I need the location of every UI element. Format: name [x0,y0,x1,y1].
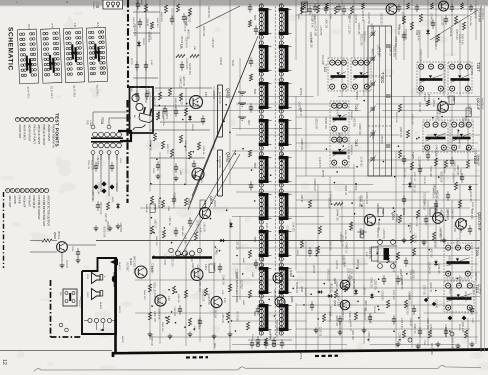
svg-text:R207 5.6K: R207 5.6K [460,34,462,45]
svg-text:CR314 4.7K: CR314 4.7K [180,36,182,49]
svg-text:L365 1K: L365 1K [432,99,434,108]
svg-text:C124 100: C124 100 [397,25,399,36]
diagonal routing bus [192,36,258,196]
svg-text:C330 5.6K: C330 5.6K [455,29,457,40]
svg-text:CR407 18K: CR407 18K [358,123,360,135]
svg-text:C140 100: C140 100 [370,278,372,289]
svg-text:C115 .047: C115 .047 [349,269,351,280]
svg-text:Q234 10K: Q234 10K [437,263,439,274]
svg-text:C319 47: C319 47 [435,299,437,308]
svg-text:Q402: Q402 [226,152,231,163]
svg-text:C355 270: C355 270 [381,291,383,302]
diode output [110,259,118,266]
inlet terminal b [136,103,143,110]
svg-text:500mW: 500mW [304,288,306,296]
svg-text:L476 47: L476 47 [146,18,148,27]
Q204 components [349,222,352,230]
svg-text:Q406: Q406 [300,286,303,293]
tone network resistors [153,133,156,141]
svg-text:S1-J~S1-L: S1-J~S1-L [95,85,99,98]
svg-text:L103 100: L103 100 [440,16,442,26]
T501 primary wires [92,112,94,125]
svg-text:CR132 33K: CR132 33K [367,12,369,24]
svg-text:FM 2ND IF: FM 2ND IF [481,8,484,20]
svg-text:L308 100: L308 100 [221,313,223,323]
svg-text:CR238 100: CR238 100 [150,334,152,346]
svg-text:Q258 33K: Q258 33K [197,319,199,330]
test point legend entry 8 [15,117,19,121]
svg-text:L296 .02: L296 .02 [168,217,170,227]
svg-text:CR482 33K: CR482 33K [368,247,370,259]
svg-text:AM RF INPUT: AM RF INPUT [47,125,51,142]
svg-text:L321 270: L321 270 [471,284,473,294]
svg-text:Q426 .047: Q426 .047 [364,300,366,311]
svg-text:Q120 1K: Q120 1K [335,260,337,270]
svg-text:R297 270: R297 270 [268,330,270,341]
svg-text:C263 47: C263 47 [409,318,411,327]
svg-text:CR359 4.7K: CR359 4.7K [336,104,338,117]
svg-text:L419 100: L419 100 [330,283,332,293]
paper mottling [213,206,230,212]
svg-text:MD RF INPUT: MD RF INPUT [27,125,31,142]
svg-text:R326 2.2K: R326 2.2K [440,171,442,182]
svg-text:CX20: CX20 [86,292,88,298]
ceramic filter CF201 [136,61,138,65]
svg-text:T209: T209 [475,247,480,257]
svg-text:Q180 .02: Q180 .02 [429,324,431,334]
svg-text:T 102: T 102 [323,64,327,72]
components above IF column [249,3,251,7]
IF transformer T203 [260,79,262,113]
shield boundary dash-dot speaker [50,280,52,337]
svg-text:CR200 33K: CR200 33K [439,230,441,242]
svg-text:R215 5.6K: R215 5.6K [395,112,397,123]
svg-text:R301 18K: R301 18K [464,116,466,127]
svg-text:CR339 270: CR339 270 [380,13,382,25]
svg-text:C228 10K: C228 10K [191,263,193,274]
IF transformer T224 [280,153,282,187]
svg-text:0.21V: 0.21V [204,264,206,270]
svg-text:WHITE: WHITE [121,336,123,344]
speaker jack J501 [92,289,101,300]
svg-text:Q401: Q401 [226,88,231,99]
transistor Q405b output [211,296,222,307]
ground bus dash marks [186,356,208,358]
svg-text:C369 10K: C369 10K [214,308,216,319]
transistor Q404a output [135,266,147,278]
svg-text:Q340 18K: Q340 18K [335,281,337,292]
svg-text:T201: T201 [253,15,256,21]
svg-text:C364 270: C364 270 [151,263,153,274]
svg-text:L270 18K: L270 18K [184,15,186,25]
transistor Q102 [439,1,449,11]
svg-text:Q436 4.7K: Q436 4.7K [416,30,418,41]
svg-text:RIPPLE: RIPPLE [57,231,59,240]
svg-text:T254: T254 [253,311,256,317]
svg-text:MATCHED PAIR: MATCHED PAIR [133,256,136,273]
svg-text:L262 .001: L262 .001 [351,330,353,341]
connector stub [96,2,99,8]
svg-text:T205: T205 [411,152,415,159]
svg-text:RED: RED [213,343,215,348]
svg-text:C353 4.7K: C353 4.7K [184,37,186,48]
svg-text:C467 120: C467 120 [451,209,453,220]
inter-column centerline [274,6,276,338]
tuning gang T101 frame [368,26,392,176]
transistor Q404b output [191,269,203,281]
IF transformer T252 [260,227,262,261]
svg-text:CR449 18K: CR449 18K [335,209,337,221]
svg-text:0.8V: 0.8V [459,228,461,233]
svg-text:CR210: CR210 [458,324,460,331]
svg-text:FILTER: FILTER [65,260,67,268]
detector grounds [397,342,399,345]
svg-text:AUDIO 2W: AUDIO 2W [218,156,221,169]
svg-text:R382 100: R382 100 [358,228,360,239]
svg-text:R435 47K: R435 47K [174,98,176,108]
svg-text:R232 .001: R232 .001 [202,26,204,37]
svg-text:4.7K: 4.7K [199,228,201,233]
svg-text:FM 1st IF INPUT: FM 1st IF INPUT [32,125,36,145]
svg-text:R484 .02: R484 .02 [344,186,346,196]
svg-text:L471 100: L471 100 [212,262,214,272]
svg-text:CR248 .02: CR248 .02 [388,45,390,57]
svg-text:R251: R251 [296,250,298,256]
test point legend entry 4 [35,117,39,121]
svg-text:CR405: CR405 [191,124,193,132]
svg-text:L168 560: L168 560 [312,264,314,274]
svg-text:C122 5.6K: C122 5.6K [285,226,287,237]
svg-text:Q382 33K: Q382 33K [374,280,376,291]
svg-text:GRN: GRN [200,178,202,183]
svg-text:C242 4.7K: C242 4.7K [468,104,470,115]
wires top-left cluster [133,11,160,13]
svg-text:L112 18K: L112 18K [347,24,349,34]
svg-text:R166 120: R166 120 [371,130,373,141]
transistor Q406 [273,273,283,283]
IF transformer T202 [260,42,262,76]
svg-text:R205 560: R205 560 [400,279,402,290]
svg-text:R323 2.2K: R323 2.2K [261,257,263,268]
svg-text:C483 47: C483 47 [407,291,409,300]
svg-text:R221 18K: R221 18K [403,168,405,178]
svg-text:Q449 .001: Q449 .001 [198,281,200,292]
svg-text:L156 270: L156 270 [149,30,151,40]
svg-text:R356 560: R356 560 [346,277,348,288]
preamp components [158,92,161,100]
svg-text:C153 .001: C153 .001 [473,149,475,160]
svg-text:12: 12 [1,359,7,365]
svg-text:F-M: F-M [73,23,76,27]
IF transformer T208 [450,120,473,152]
filter cap C507 [97,201,99,205]
IF transformer T205 [423,120,448,152]
svg-text:VIOLET: VIOLET [78,300,80,308]
IF transformer T227 [280,264,282,298]
svg-text:L501: L501 [119,158,121,164]
power switch S501 [63,289,77,306]
svg-text:Q404: Q404 [129,258,133,265]
components beside IF column [250,57,252,61]
svg-text:R274 18K: R274 18K [423,200,425,211]
svg-text:R260 120: R260 120 [449,287,451,298]
svg-text:R389 4.7K: R389 4.7K [362,31,364,42]
top edge wire runs [300,3,392,5]
svg-text:L503: L503 [86,274,88,280]
svg-text:R227 2.2K: R227 2.2K [415,216,417,227]
svg-text:CR183 560: CR183 560 [188,63,190,75]
svg-text:AM PB: AM PB [13,196,17,204]
wire mesh vertical runs [149,92,151,191]
speaker assembly thick outline [82,258,116,334]
transistor Q206 [340,300,350,310]
svg-text:C229 .01: C229 .01 [433,238,435,248]
svg-text:L153 4.7K: L153 4.7K [369,313,371,324]
scanner top edge band [0,0,488,6]
svg-text:2.2K: 2.2K [221,290,223,295]
svg-text:C183 .047: C183 .047 [429,166,431,177]
svg-text:C360 .001: C360 .001 [423,285,425,296]
svg-text:C142 1K: C142 1K [434,37,436,46]
svg-text:R427 270: R427 270 [166,144,168,154]
svg-text:4.5V: 4.5V [365,252,367,257]
switch wafer block S1 group 2 [40,23,62,99]
IF transformer T102 [328,58,348,91]
svg-text:C154 .02: C154 .02 [438,105,440,115]
svg-text:OFF: OFF [79,296,81,301]
svg-text:L308 .001: L308 .001 [367,331,369,342]
svg-text:S1-D~S1-F: S1-D~S1-F [50,86,54,99]
svg-text:C191 4.7K: C191 4.7K [185,58,187,69]
svg-text:R505: R505 [111,197,113,203]
svg-text:R138 47: R138 47 [354,14,356,23]
svg-text:33K: 33K [193,46,195,50]
svg-text:R200 270: R200 270 [187,12,189,23]
shield boundary dash-dot tuner block [127,0,129,88]
svg-text:L397 33K: L397 33K [412,269,414,279]
svg-text:SCHEMATIC: SCHEMATIC [7,27,14,71]
svg-text:2.1V: 2.1V [204,92,207,97]
svg-text:R417 470: R417 470 [156,18,158,28]
Q401 ground pins [238,91,246,93]
transistor Q405a output [155,295,166,306]
power transformer T501 [91,137,123,139]
svg-text:C407: C407 [130,87,132,93]
svg-text:C144 100: C144 100 [184,233,186,244]
svg-text:L445 47: L445 47 [300,194,302,203]
test point legend entry 5 [30,117,34,121]
svg-text:CR277 5.6K: CR277 5.6K [336,294,338,307]
transistor Q202 [438,102,449,113]
driver transformer T401 [152,256,212,258]
svg-text:CR305 18K: CR305 18K [338,322,340,334]
ratio detector transformer T209 [444,243,472,278]
svg-text:C217 .02: C217 .02 [413,172,415,182]
IF transformer T251 [260,190,262,224]
svg-text:C265: C265 [423,340,425,346]
indicator lamp box PL101 [103,0,123,9]
svg-text:R409 27K: R409 27K [160,12,162,22]
svg-text:T214: T214 [423,94,427,101]
svg-text:Q224 6.8K: Q224 6.8K [399,127,401,138]
wire to chassis left [0,350,112,352]
output stage grounds [149,332,151,335]
svg-text:CR331 100: CR331 100 [365,192,367,204]
test point legend entry 7 [20,117,24,121]
svg-text:C239 100: C239 100 [418,102,420,113]
svg-text:R209 1K: R209 1K [449,28,451,37]
svg-text:Q348 .02: Q348 .02 [413,324,415,334]
svg-text:AM 2ND IF: AM 2ND IF [481,98,484,110]
svg-text:BLACK: BLACK [118,262,121,270]
bottom small cluster [257,336,259,340]
svg-text:L342 560: L342 560 [456,239,458,249]
svg-text:S1-A~S1-L: S1-A~S1-L [26,86,30,99]
detector diodes [448,316,453,321]
svg-text:C178 47: C178 47 [343,259,345,268]
svg-text:CR109 1K: CR109 1K [328,198,330,209]
IF transformer T201 [260,5,262,39]
wire mesh horizontal runs [150,96,313,98]
svg-text:C106 6.8K: C106 6.8K [400,318,402,329]
svg-text:Q319 6.8K: Q319 6.8K [404,29,406,40]
svg-text:CR420 10K: CR420 10K [435,145,437,157]
svg-text:A419: A419 [140,0,143,6]
svg-text:L134 5.6K: L134 5.6K [382,229,384,240]
diagonal routing bus lower [176,150,236,252]
svg-text:R285 .047: R285 .047 [335,316,337,327]
top mid resistors [164,5,167,13]
svg-text:CR262 4.7K: CR262 4.7K [286,206,288,219]
svg-text:455(B)(S): 455(B)(S) [350,110,352,120]
svg-text:C228 560: C228 560 [376,228,378,239]
svg-text:L409 120: L409 120 [324,19,326,29]
svg-text:R127 100: R127 100 [265,223,267,234]
transistor Q407 [275,297,285,307]
svg-text:L322 .02: L322 .02 [104,213,106,223]
svg-text:T203: T203 [253,89,256,95]
svg-text:CR319 100: CR319 100 [341,235,343,247]
svg-text:PSB 1st IF INPUT: PSB 1st IF INPUT [42,125,46,146]
svg-text:10.7MHz: 10.7MHz [470,66,472,76]
switch wafer block S1 group 3 [63,22,85,97]
speaker L503 [92,273,101,284]
svg-text:WHITE: WHITE [118,306,120,314]
svg-text:C255 100: C255 100 [281,311,283,322]
IF transformer T226 [280,227,282,261]
bottom right electrolytics [408,338,412,342]
svg-text:L163 18K: L163 18K [203,222,205,232]
svg-text:WHITE: WHITE [321,170,323,178]
switch wafer block S1 group 1 [17,24,39,100]
svg-text:CR498 47: CR498 47 [452,172,454,183]
svg-text:SQUELCH: SQUELCH [295,282,297,293]
electrolytic C511 [112,276,116,283]
aux terminal circles [59,323,63,327]
test point legend entry 16 [11,188,15,192]
RF components top right [402,16,405,24]
svg-text:CR162 2.2K: CR162 2.2K [327,269,329,282]
svg-text:L119 10K: L119 10K [173,307,175,317]
test point legend entry 6 [25,117,29,121]
top center components [300,6,303,14]
svg-text:455(B)(S): 455(B)(S) [350,145,352,155]
svg-text:C461: C461 [251,272,253,278]
right mid components [398,104,401,112]
transistor Q204b [433,213,444,224]
svg-text:R492 6.8K: R492 6.8K [371,48,373,59]
schematic frame right edge [480,6,482,352]
svg-text:C365 10K: C365 10K [456,165,458,176]
svg-text:CR213 47: CR213 47 [408,223,410,234]
bias diode [219,240,225,242]
svg-text:CR248 2.2K: CR248 2.2K [313,179,315,192]
switch wafer block S1 group 4 [86,22,108,98]
svg-text:ON: ON [59,292,61,296]
tone network wires [150,129,210,131]
svg-text:L463 1K: L463 1K [363,286,365,295]
svg-text:C441: C441 [167,206,169,212]
IF transformer T213 [330,135,349,167]
svg-text:BLACK: BLACK [99,302,102,310]
svg-text:C318 .02: C318 .02 [157,198,159,208]
svg-text:R455 150: R455 150 [161,322,163,332]
svg-text:Q132 6.8K: Q132 6.8K [435,200,437,211]
gang section dividers [368,75,392,77]
svg-text:Q300 6.8K: Q300 6.8K [207,294,209,305]
svg-text:R137 560: R137 560 [235,311,237,322]
svg-text:Q316 100: Q316 100 [469,191,471,202]
svg-text:L178 270: L178 270 [319,26,321,36]
svg-text:C189 100: C189 100 [446,208,448,219]
antenna terminal box [302,2,308,12]
svg-text:L378 18K: L378 18K [91,191,93,201]
svg-text:R429 1K: R429 1K [202,146,204,155]
test point legend entry 17 [6,188,10,192]
svg-text:R461: R461 [242,258,244,264]
svg-text:C132 120: C132 120 [418,156,420,167]
svg-text:Q422 .047: Q422 .047 [153,311,155,322]
svg-text:R108 47: R108 47 [410,175,412,184]
svg-text:CR219 100: CR219 100 [419,49,421,61]
svg-text:Q204 10K: Q204 10K [328,240,330,251]
svg-text:CR360 1K: CR360 1K [187,198,189,209]
svg-text:R267 8.2K: R267 8.2K [451,338,453,349]
boxed voltage callouts [449,96,454,105]
svg-text:CR438 120: CR438 120 [324,117,326,129]
svg-text:C427: C427 [179,170,181,176]
svg-text:CR119 47: CR119 47 [448,256,450,267]
IF transformer T220 [280,5,282,39]
Q501 wiring [42,239,52,242]
svg-text:L246 2.2K: L246 2.2K [280,224,282,235]
svg-text:BLUE: BLUE [231,60,233,66]
svg-text:RED: RED [247,120,249,125]
T501 terminals [91,151,95,155]
svg-text:T213: T213 [354,139,358,146]
preamp transistor Q408 [190,96,203,109]
svg-text:T501: T501 [100,117,104,124]
svg-text:R183 560: R183 560 [153,293,155,304]
svg-text:CR238 5.6K: CR238 5.6K [341,308,343,321]
ratio detector transformer T210 [444,281,474,312]
transistor Q204 AM converter [364,214,375,225]
svg-text:AM 2nd IF: AM 2nd IF [22,196,26,208]
svg-text:C177 1K: C177 1K [216,85,218,94]
IF transformer T228 [280,301,282,335]
svg-text:CR121 5.6K: CR121 5.6K [99,202,101,215]
IF transformer T253 [260,264,262,298]
